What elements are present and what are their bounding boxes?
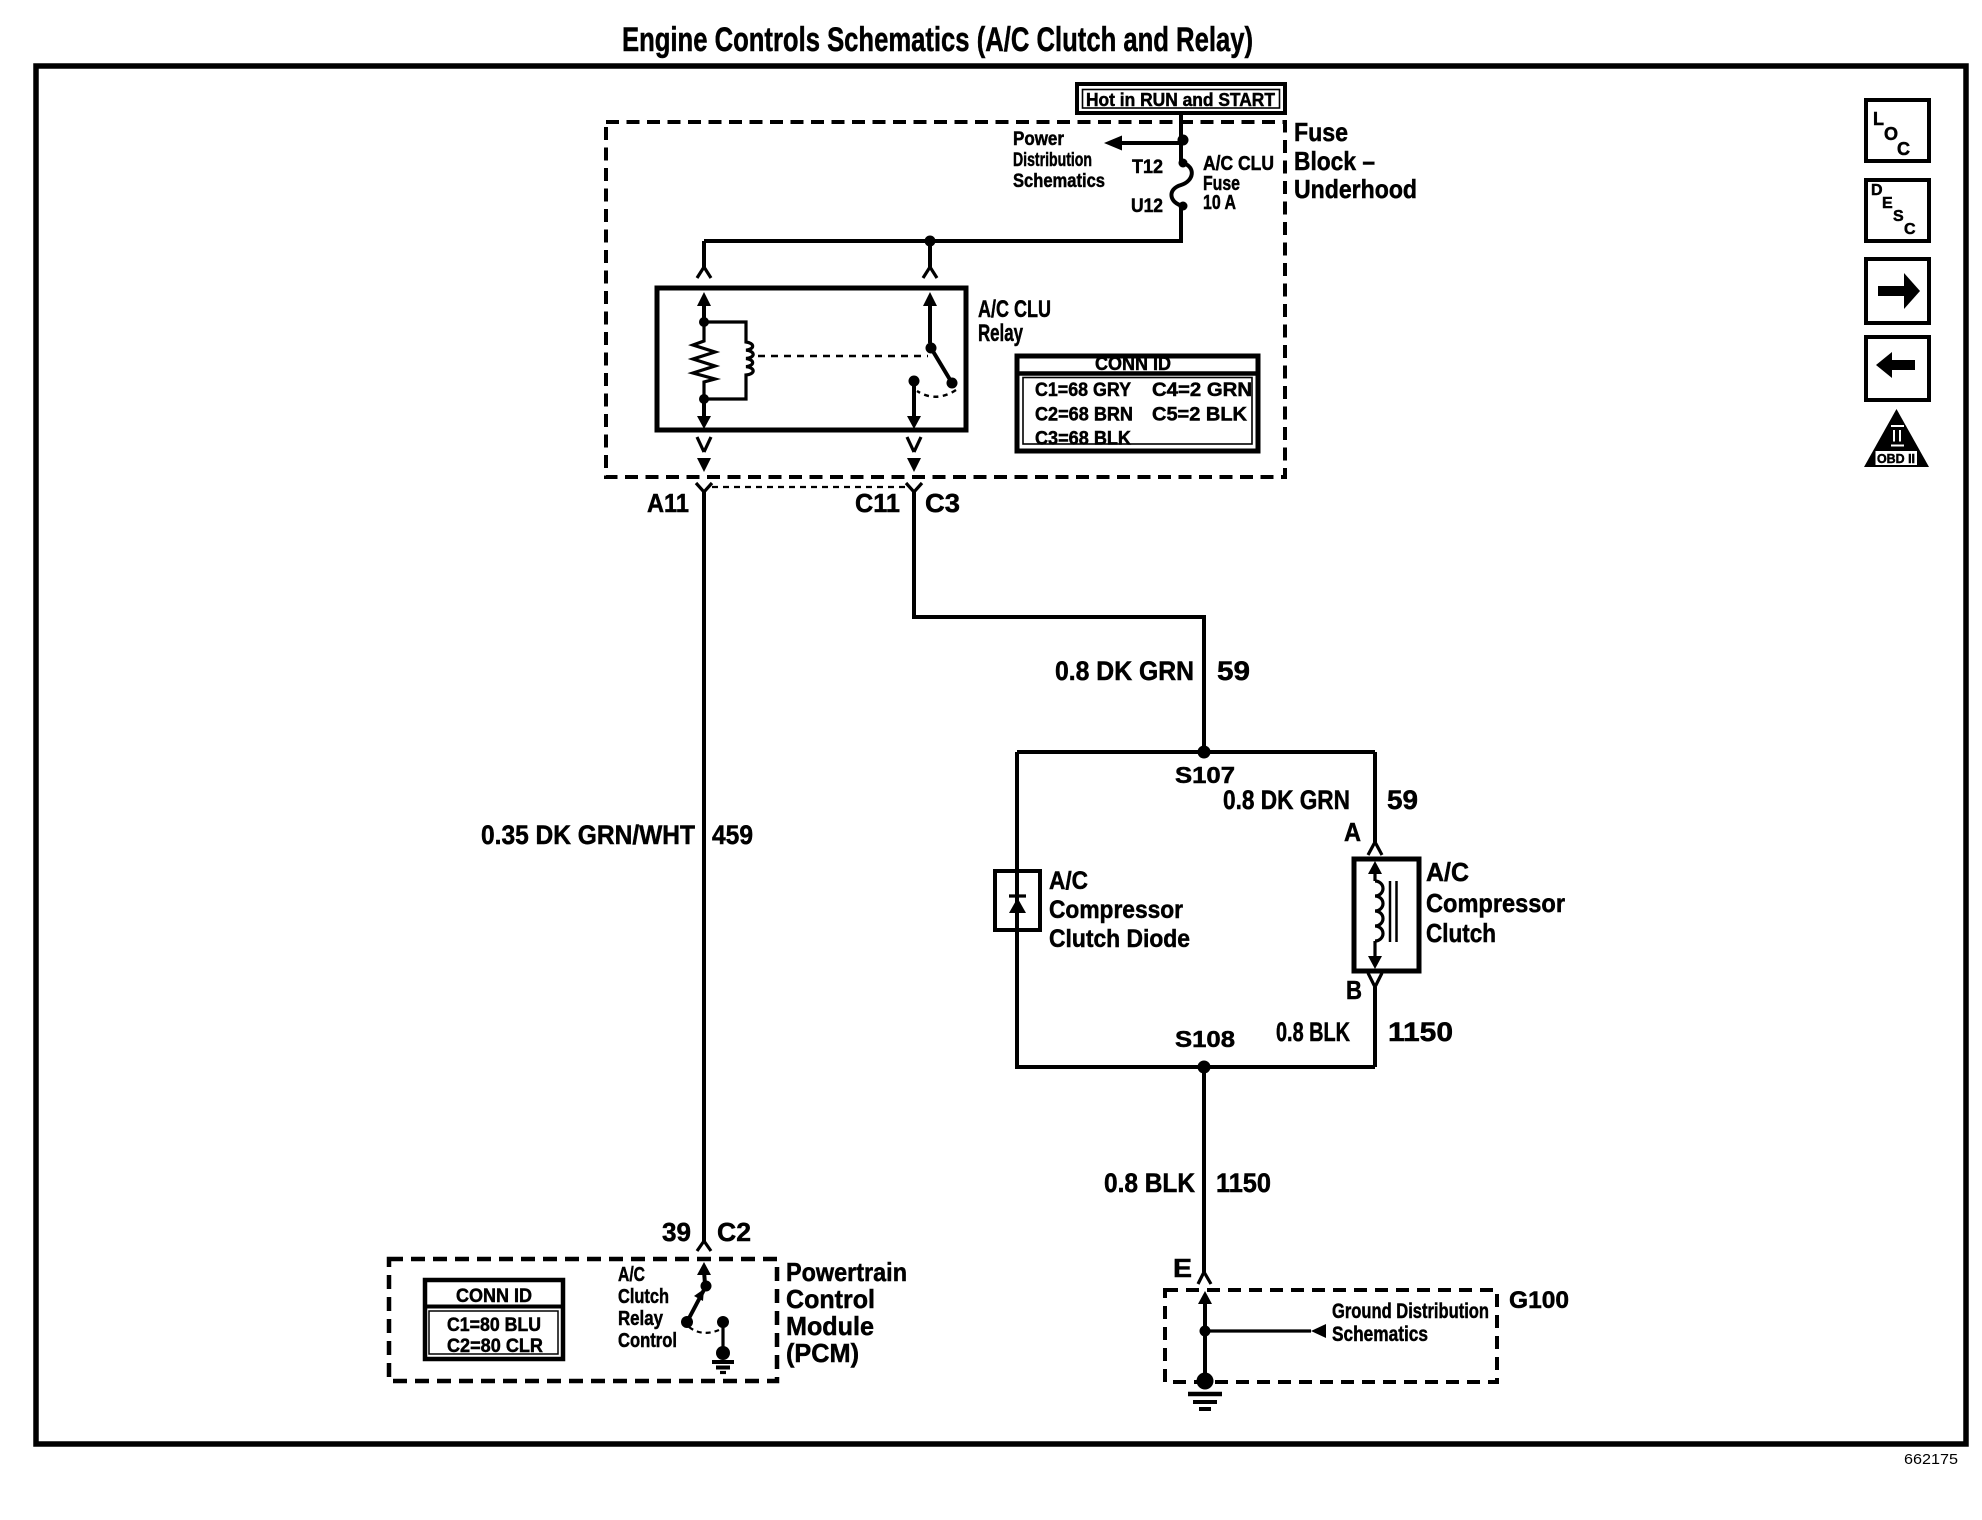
svg-text:0.35 DK GRN/WHT: 0.35 DK GRN/WHT <box>481 820 695 850</box>
svg-text:A11: A11 <box>647 488 689 518</box>
svg-text:C3: C3 <box>925 488 960 518</box>
svg-text:0.8 BLK: 0.8 BLK <box>1104 1168 1195 1198</box>
svg-text:C4=2 GRN: C4=2 GRN <box>1152 380 1252 401</box>
svg-text:C2=68 BRN: C2=68 BRN <box>1035 405 1133 426</box>
svg-text:Control: Control <box>618 1330 677 1352</box>
svg-text:E: E <box>1173 1253 1192 1283</box>
svg-text:A/C CLU: A/C CLU <box>1203 153 1274 175</box>
svg-text:D: D <box>1871 182 1883 199</box>
svg-text:B: B <box>1346 975 1362 1005</box>
svg-text:0.8 DK GRN: 0.8 DK GRN <box>1055 656 1194 686</box>
svg-text:Power: Power <box>1013 129 1065 150</box>
svg-text:A: A <box>1344 817 1361 847</box>
svg-text:Compressor: Compressor <box>1049 896 1183 924</box>
svg-text:C2=80 CLR: C2=80 CLR <box>447 1336 543 1357</box>
svg-text:Fuse: Fuse <box>1294 117 1348 147</box>
svg-text:A/C: A/C <box>618 1264 645 1286</box>
svg-text:Hot in RUN and START: Hot in RUN and START <box>1086 90 1275 110</box>
svg-text:Clutch Diode: Clutch Diode <box>1049 925 1190 953</box>
svg-text:Powertrain: Powertrain <box>786 1257 907 1287</box>
svg-text:C11: C11 <box>855 488 900 518</box>
svg-text:662175: 662175 <box>1904 1451 1958 1468</box>
svg-text:U12: U12 <box>1131 196 1163 217</box>
svg-text:Distribution: Distribution <box>1013 150 1092 171</box>
svg-text:59: 59 <box>1387 785 1418 815</box>
svg-text:10 A: 10 A <box>1203 192 1236 214</box>
svg-text:CONN ID: CONN ID <box>1095 354 1171 375</box>
svg-text:S: S <box>1893 208 1904 225</box>
svg-text:C1=68 GRY: C1=68 GRY <box>1035 380 1131 401</box>
svg-text:S108: S108 <box>1175 1026 1235 1052</box>
svg-text:Ground Distribution: Ground Distribution <box>1332 1300 1489 1323</box>
svg-text:Block –: Block – <box>1294 146 1375 176</box>
svg-text:C3=68 BLK: C3=68 BLK <box>1035 429 1131 450</box>
svg-text:A/C CLU: A/C CLU <box>978 296 1051 323</box>
svg-text:Engine Controls Schematics (A/: Engine Controls Schematics (A/C Clutch a… <box>622 21 1253 59</box>
svg-text:459: 459 <box>712 820 753 850</box>
svg-text:G100: G100 <box>1509 1287 1569 1314</box>
svg-text:Clutch: Clutch <box>618 1286 669 1308</box>
svg-text:Clutch: Clutch <box>1426 918 1496 948</box>
svg-text:Compressor: Compressor <box>1426 888 1565 918</box>
svg-text:1150: 1150 <box>1388 1017 1453 1047</box>
svg-text:Schematics: Schematics <box>1332 1323 1428 1346</box>
svg-text:C: C <box>1897 139 1910 159</box>
svg-text:T12: T12 <box>1132 157 1163 178</box>
svg-text:C5=2 BLK: C5=2 BLK <box>1152 405 1247 426</box>
svg-text:Relay: Relay <box>618 1308 664 1330</box>
svg-text:0.8 BLK: 0.8 BLK <box>1276 1017 1350 1047</box>
svg-text:Control: Control <box>786 1284 875 1314</box>
svg-text:C: C <box>1904 221 1916 238</box>
svg-text:O: O <box>1884 124 1898 144</box>
svg-text:0.8 DK GRN: 0.8 DK GRN <box>1223 785 1350 815</box>
svg-text:Underhood: Underhood <box>1294 174 1417 204</box>
svg-text:Module: Module <box>786 1311 874 1341</box>
svg-text:L: L <box>1873 109 1884 129</box>
svg-text:C1=80 BLU: C1=80 BLU <box>447 1315 541 1336</box>
svg-text:Schematics: Schematics <box>1013 171 1105 192</box>
svg-text:39: 39 <box>662 1217 691 1247</box>
svg-text:A/C: A/C <box>1426 857 1469 887</box>
svg-text:C2: C2 <box>717 1217 751 1247</box>
svg-text:1150: 1150 <box>1216 1168 1271 1198</box>
svg-text:CONN ID: CONN ID <box>456 1286 532 1307</box>
svg-text:Relay: Relay <box>978 320 1023 347</box>
svg-text:E: E <box>1882 195 1893 212</box>
svg-text:(PCM): (PCM) <box>786 1338 859 1368</box>
svg-text:A/C: A/C <box>1049 867 1088 895</box>
svg-text:OBD II: OBD II <box>1877 451 1915 466</box>
svg-text:59: 59 <box>1217 656 1250 686</box>
